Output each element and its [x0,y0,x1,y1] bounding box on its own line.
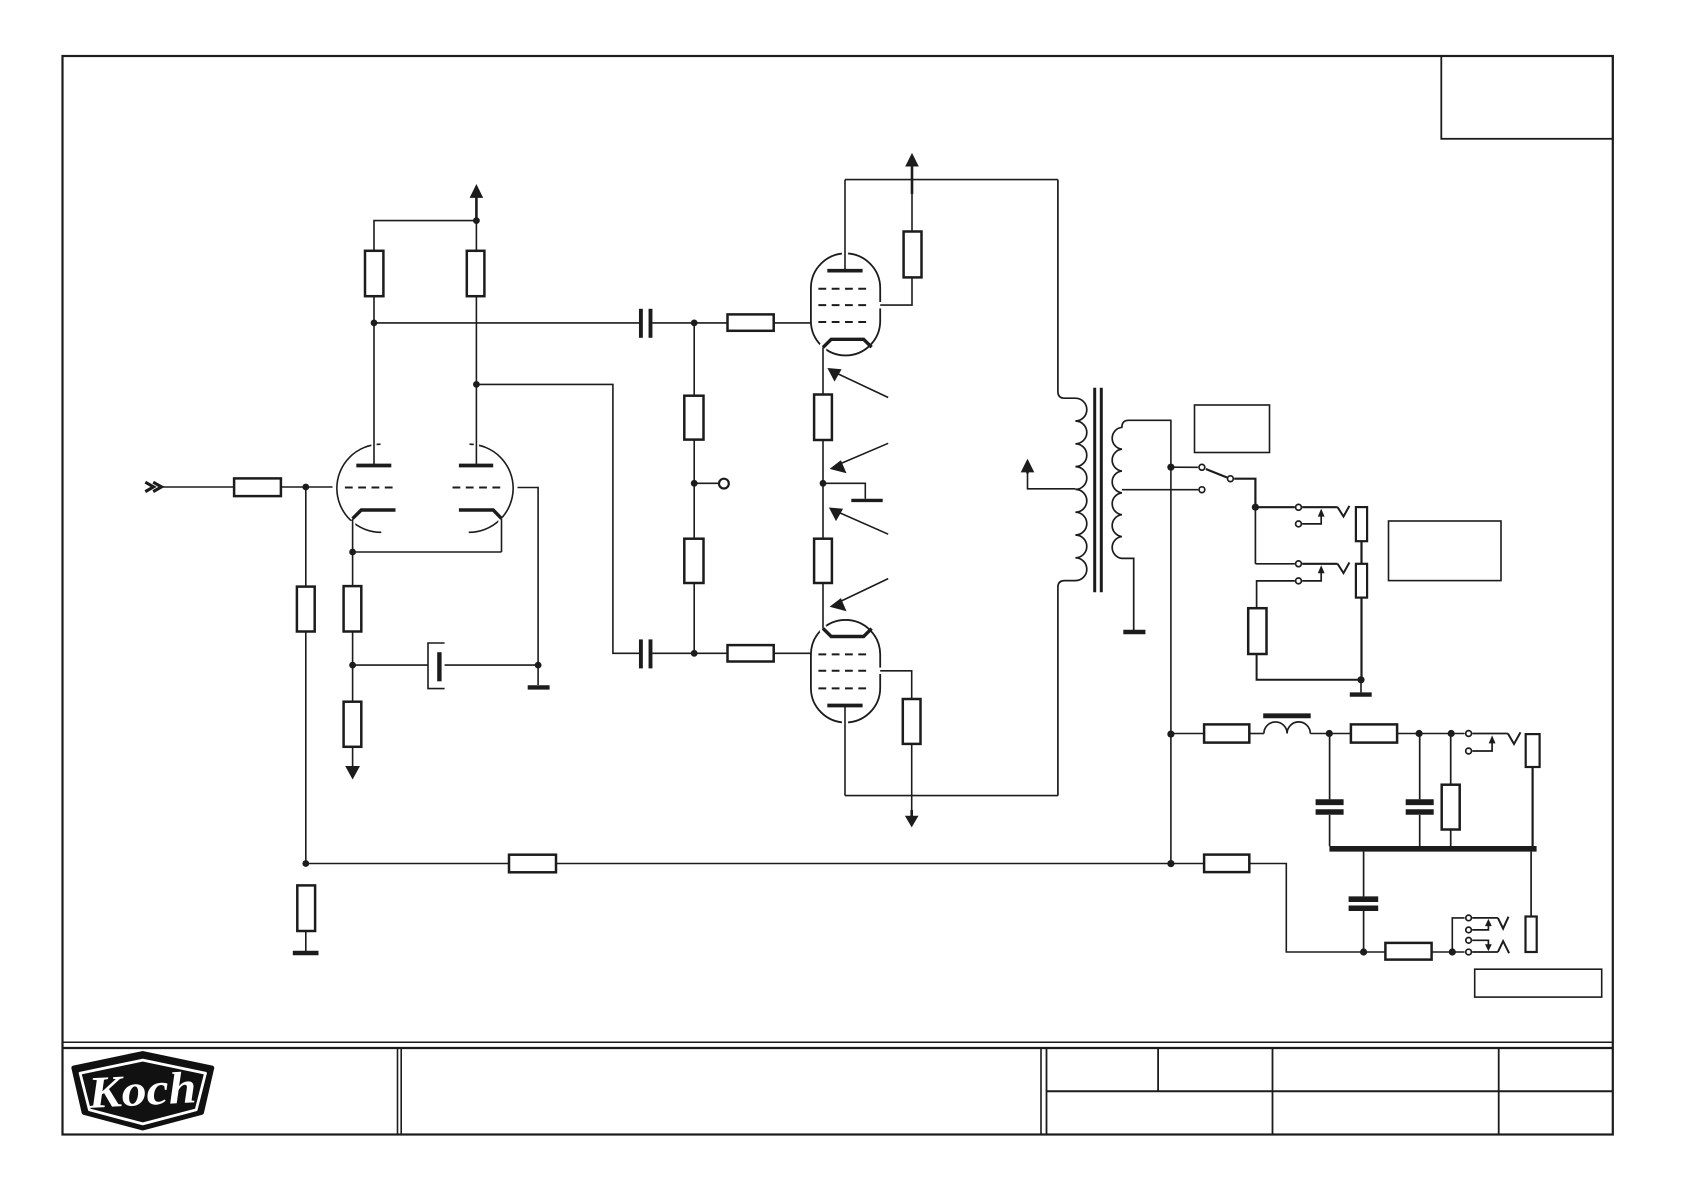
wire node to bypass cap [353,664,428,666]
wire V1b plate to C2 [476,384,639,653]
selector lever [1206,469,1227,478]
V1b grid wire to C-bypass node [518,488,539,666]
V3 grid g3 dashes [818,687,871,689]
B+ arrow V1 [475,196,478,221]
screen resistor R13 [903,699,921,744]
title block divider 1 (double) [397,1048,399,1135]
T1 secondary ground [1123,630,1145,634]
node V1a plate [371,320,378,327]
resistor R5 [344,702,362,747]
wire C2 to node [653,652,728,654]
annotation arrow 4 [835,579,888,604]
resistor R1 [234,478,281,496]
cathode resistor R12 [814,539,832,583]
wires grid leak column [305,487,307,587]
cathode resistor R3 [344,586,362,631]
node R20 [1448,730,1455,737]
selector pole B [1228,476,1234,482]
resistor R4 [297,885,315,931]
annotation arrow 3 [835,511,889,535]
node bias point [820,480,827,487]
KOCH LOGO [74,1053,212,1128]
divider resistor R8 [684,539,703,583]
T1 secondary [1112,420,1171,630]
wire Ra top jumper [374,221,476,251]
jack2 sleeve line + inverted V [1472,951,1498,953]
resistor R21 [1204,855,1249,873]
wire V2 plate to OT [845,179,1058,181]
speaker jack 1 [1255,506,1294,508]
T1 secondary tap wire [1122,489,1198,491]
node line-out feed [1167,731,1174,738]
wire R16 to ground node [1257,654,1361,680]
ground bypass [528,685,550,689]
V2 grid g2 dashes [818,304,871,306]
V2 plate bar [827,269,862,273]
V2 grid g1 dashes [818,321,871,323]
filter cap C4 [1329,734,1331,800]
coupling cap C6 [1363,852,1365,897]
jack2 switch contact [1296,578,1302,584]
wire to R17 [1171,733,1204,735]
V1b plate lead [475,296,477,465]
V1a cathode [353,510,396,519]
arrow to negative rail [345,766,360,780]
jack2 switch arrows [1472,925,1488,930]
arrow negative rail V3 [910,810,913,816]
bias bar [851,499,882,502]
node lineout2 [1449,948,1456,955]
node divider mid [691,480,698,487]
plate resistor Ra (V1a) [365,251,383,296]
wire L1 to R18 [1310,733,1351,735]
svg-text:Koch: Koch [86,1062,198,1118]
resistor R22 [1385,943,1431,960]
V3 plate bar [827,704,862,708]
wire C1 to node [653,322,728,324]
title block mid line [1047,1090,1613,1092]
label box 2 (speaker out) [1389,521,1502,581]
speaker jack 2 [1255,563,1294,565]
lineout jack2 contacts [1466,915,1472,921]
V1a grid dashes [345,487,396,489]
wire R15 to ground node [1360,598,1362,680]
lineout jack1 contact [1466,731,1472,737]
jack2 contact to R16 [1257,581,1295,608]
wire bus to R23 [1530,852,1532,917]
node PI bottom [691,650,698,657]
triode V1b envelope [469,444,513,532]
node B+ V1 [473,217,480,224]
node selector [1167,464,1174,471]
V3 grid g2 dashes [818,670,871,672]
output transformer T1 primary [1058,180,1087,796]
V3 plate lead [844,706,846,796]
node bypass ground [535,662,542,669]
node PI top [691,320,698,327]
wire R17 to L1 [1249,733,1264,735]
V1a cathode lead [352,519,354,552]
title block divider 4 [1272,1048,1274,1135]
grid stopper R6 [728,314,774,330]
wire jack node down [1254,507,1256,564]
node NFB [302,860,309,867]
revision box top right [1441,56,1613,139]
Koch logo shield [74,1053,212,1128]
wire R10 to V2 g2 [880,277,912,305]
annotation arrow 1 [833,372,888,398]
lineout jack1 switch contact [1466,748,1472,754]
B+ arrow V2 [911,194,913,232]
pentode V3 envelope [811,620,880,723]
pentode V2 envelope [811,253,880,355]
input jack chevrons [145,482,161,491]
wire to mid terminal [694,482,718,484]
V1a plate bar [356,464,391,468]
V2 cathode [823,339,872,347]
V1b plate bar [459,464,493,468]
label box 1 (impedance) [1195,405,1270,453]
NFB resistor [509,855,556,873]
ground input [293,951,319,956]
T1 core [1093,388,1096,593]
cathode tie wire [353,551,502,553]
cathode resistor R11 [814,395,832,441]
wire V3 g2 [880,671,912,699]
resistor R16 [1248,608,1266,654]
wire R9 to V3 grid [774,652,811,654]
grid stopper R9 [728,645,774,661]
node cathode/bypass [349,662,356,669]
V1b grid dashes [453,487,504,489]
inductor L1 [1264,722,1310,734]
node speaker jacks [1252,504,1259,511]
title block divider 2 (double) [1040,1048,1042,1135]
wire R19 to bus [1531,767,1533,846]
bleeder resistor R20 [1450,734,1452,785]
node C-sim2 [1416,730,1423,737]
wire selector to jack node [1234,479,1255,508]
title block top double line [63,1041,1613,1043]
speaker feed vertical [1170,420,1172,863]
wire R18 to jack [1397,733,1465,735]
envelope gaps V2/V3 [820,250,884,725]
wire R1 to V1a grid [281,486,333,488]
wire R6 to V2 grid [774,322,811,324]
node grid V1a [302,484,309,491]
plate resistor Rb (V1b) [467,251,485,296]
wire R13 down [911,744,913,812]
V3 grid g1 dashes [818,653,871,655]
load resistor R14 [1356,507,1367,541]
resistor R18 [1351,724,1397,742]
wire plate V1a to C1 [374,322,639,324]
L1 core bar [1263,713,1311,718]
title block divider 3 [1157,1048,1159,1091]
V1b cathode [459,510,502,519]
screen resistor R10 [904,232,922,278]
open terminal circle [719,479,729,489]
T1 primary center tap B+ arrow [1028,472,1076,489]
divider resistor R7 [684,396,703,440]
bypass capacitor C3 (electrolytic) [428,643,445,689]
coupling capacitor C2 [641,639,651,668]
node NFB takeoff [1167,860,1174,867]
annotation arrow 2 [835,443,888,466]
wire V3 plate to OT [845,795,1058,797]
V1b cathode lead [501,519,503,552]
triode V1a envelope [337,444,381,532]
bias tail [823,483,865,499]
node cathodes [349,549,356,556]
jack1 switch contact [1296,521,1302,527]
V2 grid g3 dashes [818,288,871,290]
divider vertical wires [693,323,695,396]
ground speaker [1350,692,1372,696]
title block divider 5 [1498,1048,1500,1135]
selector contact A [1171,466,1198,468]
load resistor R19 [1526,734,1540,767]
riser to jack2 tip [1452,918,1464,952]
grid leak R2 [297,587,315,632]
R14-R15 link [1360,541,1362,564]
wire bypass cap to ground node [445,664,538,666]
wire Rb top to B+ [475,198,477,251]
V3 cathode [823,628,872,636]
node V1b plate tap [473,381,480,388]
V2 cathode lead [822,347,824,394]
load resistor R15 [1356,564,1367,598]
selector contact C [1199,487,1205,493]
coupling capacitor C1 [641,309,651,338]
ground bus bar [1329,846,1536,852]
node speaker ground [1357,676,1364,683]
wire R21 to bottom row [1249,864,1385,953]
lineout jack1 line + V [1472,733,1508,735]
node C6 out [1360,948,1367,955]
wire input to R1 [161,486,234,488]
label box 3 (line out) [1475,969,1602,997]
resistor R17 [1204,724,1249,742]
node C-sim1 [1326,730,1333,737]
jack2 tip line + V [1472,917,1498,919]
V1a plate lead [373,296,375,465]
envelope gaps where leads cross [350,441,504,528]
load resistor R23 [1526,917,1537,953]
V2 plate lead [844,180,846,271]
NFB wire [306,863,509,865]
filter cap C5 [1419,734,1421,800]
